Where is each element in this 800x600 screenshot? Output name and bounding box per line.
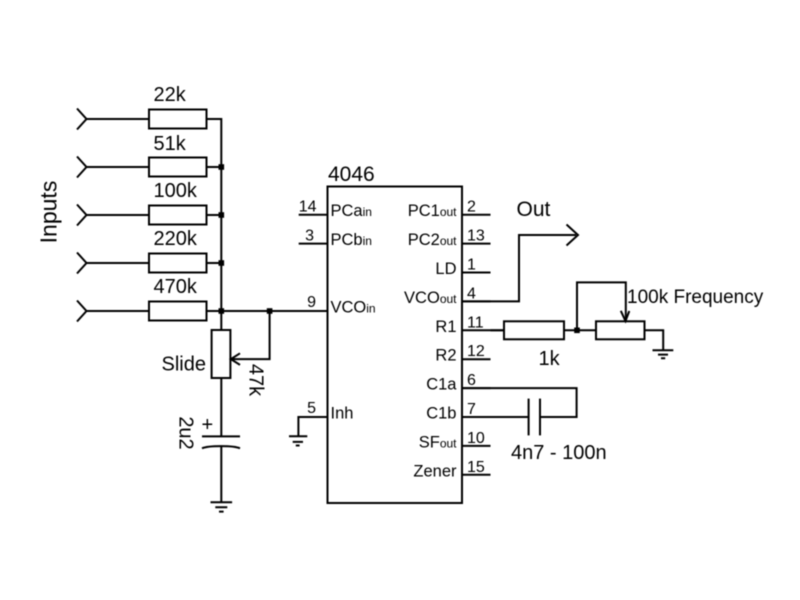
svg-text:12: 12 [467, 343, 485, 360]
svg-text:10: 10 [467, 430, 485, 447]
svg-text:100k Frequency: 100k Frequency [627, 287, 764, 308]
svg-text:VCOin: VCOin [331, 299, 376, 317]
svg-text:PC1out: PC1out [408, 202, 457, 220]
wiper arrow 47k [231, 311, 270, 365]
svg-text:R1: R1 [435, 318, 456, 336]
svg-text:5: 5 [307, 400, 316, 417]
pin 12 stub [462, 358, 491, 360]
svg-text:51k: 51k [154, 133, 187, 155]
ground [211, 502, 233, 511]
potentiometer Slide 47k [212, 330, 231, 378]
arrowhead wiper [621, 311, 630, 321]
pin 15 stub [462, 474, 491, 476]
svg-text:4: 4 [467, 285, 476, 302]
pin 10 stub [462, 445, 491, 447]
svg-text:220k: 220k [154, 228, 198, 250]
svg-text:Out: Out [517, 198, 551, 221]
svg-text:14: 14 [299, 199, 317, 216]
resistor 1k [504, 321, 564, 339]
resistor 470k [149, 302, 207, 321]
pin 5 stub [298, 417, 327, 436]
wire [87, 166, 150, 168]
svg-text:+: + [202, 414, 214, 436]
capacitor C1 right plate [539, 399, 541, 436]
wire [207, 118, 222, 120]
resistor 220k [149, 254, 207, 273]
wire [207, 262, 222, 264]
svg-text:22k: 22k [154, 84, 187, 106]
wire wiper loop [577, 282, 626, 330]
resistor 100k [149, 206, 207, 225]
wire [564, 329, 596, 331]
input connector 3 [77, 205, 87, 226]
svg-text:VCOout: VCOout [404, 289, 457, 307]
svg-text:47k: 47k [245, 364, 267, 397]
wire [645, 330, 664, 350]
svg-text:1: 1 [467, 257, 476, 274]
junction dot [219, 260, 225, 266]
wire [462, 416, 529, 418]
potentiometer 100k Frequency [596, 321, 645, 339]
svg-text:LD: LD [435, 260, 456, 278]
wire [491, 329, 505, 331]
capacitor 2u2 curved plate [202, 446, 240, 448]
wire [207, 310, 222, 312]
svg-text:2u2: 2u2 [175, 416, 197, 449]
wire [87, 310, 150, 312]
svg-text:PCain: PCain [331, 202, 372, 220]
wire [220, 378, 222, 436]
svg-text:1k: 1k [539, 348, 561, 370]
resistor 22k [149, 110, 207, 129]
wire C1a loop [462, 388, 577, 417]
svg-text:4n7 - 100n: 4n7 - 100n [511, 442, 607, 464]
pin 13 stub [462, 243, 491, 245]
svg-text:Slide: Slide [162, 354, 206, 376]
svg-text:470k: 470k [154, 276, 198, 298]
wire [220, 447, 222, 503]
svg-text:15: 15 [467, 459, 485, 476]
svg-text:13: 13 [467, 228, 485, 245]
capacitor 2u2 positive plate [202, 435, 240, 437]
wire [87, 262, 150, 264]
junction dot [219, 212, 225, 218]
pin 4 stub [462, 300, 491, 302]
svg-text:Zener: Zener [413, 462, 457, 480]
junction dot [219, 164, 225, 170]
junction dot [267, 308, 273, 314]
pin 14 stub [299, 214, 328, 216]
svg-text:9: 9 [307, 294, 316, 311]
svg-text:6: 6 [467, 372, 476, 389]
resistor 51k [149, 158, 207, 177]
input connector 1 [77, 109, 87, 130]
svg-text:11: 11 [467, 314, 484, 331]
arrowhead Out [567, 225, 579, 246]
junction dot [219, 308, 225, 314]
wire [87, 214, 150, 216]
wire VCOout to Out [462, 235, 576, 301]
pin 7 stub [462, 416, 491, 418]
svg-text:100k: 100k [154, 180, 198, 202]
pin 2 stub [462, 214, 491, 216]
ground [289, 436, 307, 445]
svg-text:7: 7 [467, 401, 476, 418]
svg-text:4046: 4046 [328, 163, 375, 186]
input connector 4 [77, 253, 87, 274]
pin 11 stub [462, 329, 504, 331]
wire [87, 118, 150, 120]
input connector 5 [77, 301, 87, 322]
svg-text:3: 3 [305, 228, 314, 245]
IC U1 4046 [328, 187, 463, 504]
svg-text:2: 2 [467, 199, 476, 216]
capacitor C1 left plate [528, 399, 530, 436]
pin 6 stub [462, 387, 491, 389]
input connector 2 [77, 157, 87, 178]
svg-text:SFout: SFout [419, 433, 457, 451]
svg-text:C1a: C1a [426, 376, 457, 394]
ground [653, 350, 674, 358]
svg-text:PC2out: PC2out [408, 231, 457, 249]
svg-text:Inh: Inh [331, 405, 354, 423]
wire to VCOin [221, 310, 327, 312]
svg-text:C1b: C1b [426, 405, 456, 423]
wire [207, 214, 222, 216]
pin 3 stub [299, 243, 328, 245]
pin 1 stub [462, 272, 491, 274]
wire input bus [220, 118, 222, 330]
svg-text:Inputs: Inputs [36, 181, 62, 244]
svg-text:R2: R2 [435, 347, 456, 365]
svg-text:PCbin: PCbin [331, 231, 372, 249]
junction dot [574, 328, 580, 334]
wire [207, 166, 222, 168]
